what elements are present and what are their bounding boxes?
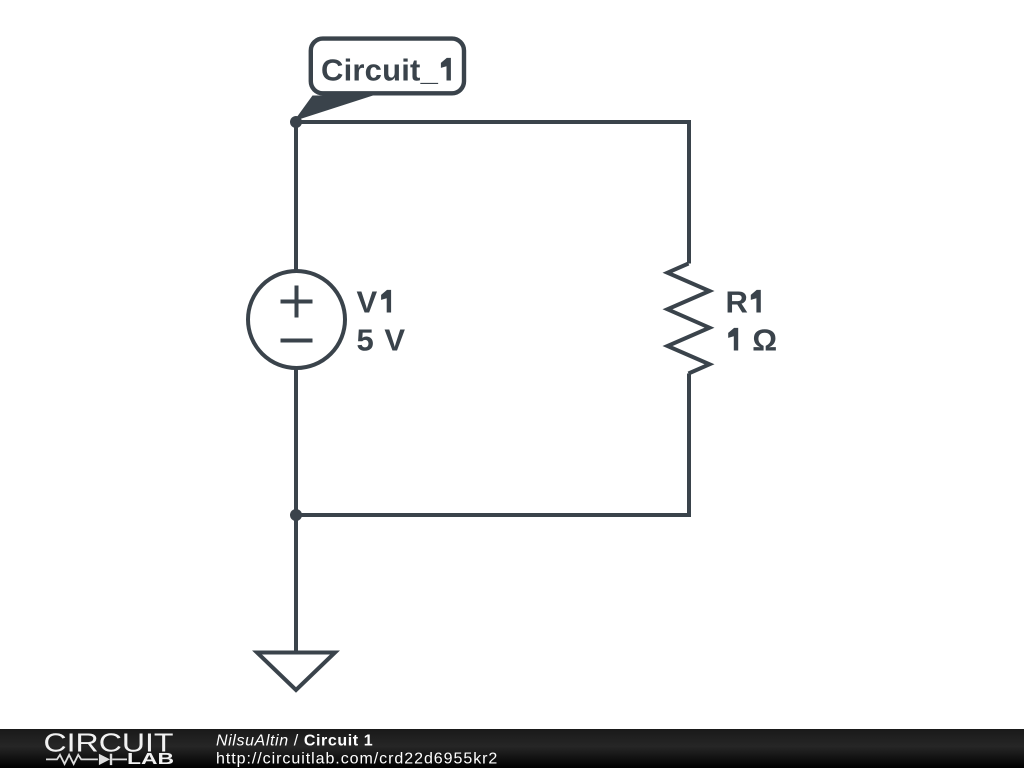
ground [257,515,335,690]
net label callout Circuit_1 [294,39,464,121]
svg-text:R: R [726,285,748,320]
wire right bottom (resistor to bottom corner) [687,374,691,518]
svg-text:http://circuitlab.com/crd22d69: http://circuitlab.com/crd22d6955kr2 [216,751,498,768]
resistor R1 [668,264,710,374]
svg-text:Circuit_: Circuit_ [321,53,439,88]
svg-text:LAB: LAB [127,751,174,768]
logo resistor-diode squiggle [46,755,127,764]
label R1 [726,285,761,320]
svg-text:V: V [357,285,378,320]
value 1 ohm [728,323,777,358]
node A (top junction) [290,116,302,128]
voltage source V1 [248,271,345,368]
svg-text:Ω: Ω [752,323,777,358]
footer bar [0,729,1024,768]
svg-text:NilsuAltin / Circuit 1: NilsuAltin / Circuit 1 [216,732,373,749]
node B (bottom junction) [290,509,302,521]
wire bottom (node B to right corner) [296,513,689,517]
wire left top (node A to V1) [294,122,298,272]
wire top (node A to R1 top corner) [296,120,689,124]
logo diode [99,754,112,765]
wire right top (corner down to resistor) [687,120,691,264]
wire left bottom (V1 to node B) [294,368,298,515]
label V1 [357,285,392,320]
svg-text:5 V: 5 V [357,323,407,358]
